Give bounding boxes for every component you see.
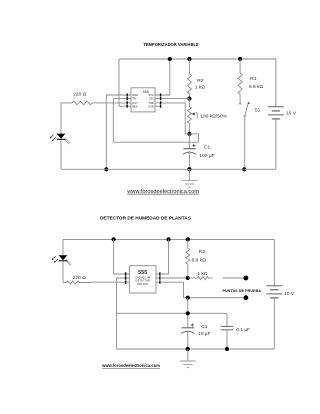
svg-text:GND VCC TRI: GND VCC TRI (135, 277, 150, 279)
node lower-probe junction (186, 296, 190, 300)
wire VCC pin to top rail (bottom circuit) (114, 239, 125, 274)
svg-text:www.forosdeelectronica.com: www.forosdeelectronica.com (126, 189, 199, 195)
wire GND pin to bottom rail (106, 95, 127, 169)
wire sense net horizontal (117, 312, 227, 314)
node VCC/top-rail junction (168, 57, 172, 61)
svg-text:RES CON: RES CON (137, 284, 148, 286)
node R2-bottom/DIS junction (187, 97, 191, 101)
svg-text:555: 555 (138, 270, 147, 276)
wire top rail (bottom circuit) (63, 238, 274, 240)
svg-text:R2: R2 (197, 78, 204, 84)
node R2/top-rail junction (186, 237, 190, 241)
svg-text:100 µF: 100 µF (199, 153, 214, 159)
resistor R2 (1 kOhm) (187, 59, 205, 99)
capacitor C1 100uF (183, 134, 215, 169)
svg-text:6.8 kΩ: 6.8 kΩ (192, 258, 207, 264)
svg-text:DIS OUT THR: DIS OUT THR (135, 281, 150, 283)
svg-text:1 kΩ: 1 kΩ (195, 84, 206, 90)
svg-text:RES: RES (132, 104, 138, 108)
svg-text:TRI: TRI (132, 97, 136, 101)
node sense-net junction (186, 311, 190, 315)
switch S1 (239, 101, 261, 169)
ground (bottom circuit) (180, 349, 196, 368)
svg-text:C1: C1 (201, 324, 208, 330)
node 0.1uF junction (225, 347, 229, 351)
svg-text:R2: R2 (199, 249, 206, 255)
wire bottom rail (bottom circuit) (117, 348, 275, 350)
svg-text:10 µF: 10 µF (198, 331, 211, 337)
wire middle-left pin down to bottom rail (117, 278, 125, 349)
wire resistor to LED (61, 103, 72, 133)
svg-text:220 Ω: 220 Ω (73, 275, 87, 281)
resistor R1 (6.8 kOhm) (238, 59, 263, 104)
wire top-right pin to top rail (160, 239, 168, 274)
svg-text:6.8 kΩ: 6.8 kΩ (249, 84, 264, 90)
svg-text:0.1 µF: 0.1 µF (236, 327, 250, 333)
node pin-branch/top-rail junction (166, 237, 170, 241)
node pot/THR/TRI/C1 junction (187, 132, 191, 136)
svg-text:OUT: OUT (132, 101, 138, 105)
wire DIS pin to R2 bottom (161, 98, 190, 100)
svg-text:THR: THR (148, 101, 153, 105)
wire LED to 220 resistor (62, 261, 64, 282)
svg-text:GND: GND (132, 93, 138, 97)
svg-text:1 kΩ: 1 kΩ (197, 271, 208, 277)
svg-text:VCC: VCC (148, 93, 154, 97)
resistor 1 kOhm (bottom circuit) (188, 271, 213, 280)
node R2-bottom junction (186, 276, 190, 280)
resistor R2 6.8 kOhm (bottom circuit) (186, 239, 206, 278)
wire LED branch (62, 239, 64, 255)
node R1/top-rail junction (238, 57, 242, 61)
wire THR pin to junction (161, 103, 190, 134)
svg-text:100 kΩ/50%: 100 kΩ/50% (200, 113, 227, 119)
svg-text:R1: R1 (250, 76, 257, 82)
node C1/ground junction (186, 347, 190, 351)
resistor 220 Ohm (bottom) (63, 275, 125, 284)
svg-text:220 Ω: 220 Ω (73, 91, 87, 97)
svg-text:DETECTOR DE HUMEDAD DE PLANTAS: DETECTOR DE HUMEDAD DE PLANTAS (100, 215, 191, 221)
svg-text:S1: S1 (254, 107, 260, 113)
node VCC-branch/top-rail junction (112, 237, 116, 241)
LED LED1 (50, 134, 72, 146)
potentiometer 100 kOhm 50% (187, 99, 227, 134)
wire TRI pin to junction (113, 99, 198, 143)
svg-text:C1: C1 (204, 144, 211, 150)
wire middle-right pin to R2 bottom (160, 277, 188, 279)
resistor 220 Ohm (top) (72, 91, 92, 104)
capacitor 0.1uF (221, 313, 251, 349)
node upper test probe (223, 277, 244, 279)
node lower test probe (188, 297, 244, 299)
op-amp U1 555 timer (bottom circuit) (125, 266, 160, 293)
battery V1 10V (top circuit) (268, 59, 297, 169)
svg-text:10 V: 10 V (284, 291, 295, 297)
capacitor C1 10uF (bottom circuit) (181, 323, 211, 349)
svg-text:DIS: DIS (149, 97, 154, 101)
wire VCC to top rail (161, 59, 170, 95)
battery V1 10V (bottom circuit) (266, 239, 294, 349)
svg-text:TEMPORIZADOR VARIABLE: TEMPORIZADOR VARIABLE (143, 42, 199, 47)
LED LED1 (bottom circuit) (52, 255, 73, 267)
svg-text:PUNTAS DE PRUEBA: PUNTAS DE PRUEBA (222, 289, 261, 293)
ground (top circuit) (181, 169, 197, 187)
wire bottom rail (top circuit) (61, 168, 276, 170)
wire C1 branch vertical (187, 298, 189, 328)
wire RES loop (pin RES to top rail) (119, 59, 127, 106)
op-amp U1 555 timer (top circuit) (127, 88, 161, 112)
node R2/top-rail junction (187, 57, 191, 61)
node GND/bottom-rail junction (104, 167, 108, 171)
svg-text:CON: CON (148, 104, 154, 108)
wire bottom-right pin to lower probe node (160, 282, 188, 298)
node S1/bottom-rail junction (242, 167, 246, 171)
node C1/ground/bottom-rail junction (187, 167, 191, 171)
wire OUT pin to 220 ohm resistor (92, 102, 127, 104)
svg-text:www.forosdeelectronica.com: www.forosdeelectronica.com (101, 363, 160, 368)
wire top rail (top circuit) (119, 58, 276, 60)
wire LED to bottom rail (60, 140, 62, 170)
svg-text:10 V: 10 V (286, 111, 297, 117)
